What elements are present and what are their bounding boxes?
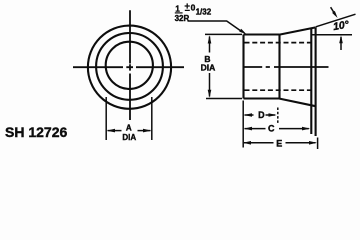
svg-text:SH 12726: SH 12726 [5,124,67,140]
svg-text:E: E [276,139,282,149]
svg-text:1: 1 [175,5,180,14]
svg-text:C: C [268,124,275,134]
svg-text:A: A [126,124,132,133]
svg-text:1/32: 1/32 [196,7,212,16]
svg-text:DIA: DIA [122,133,136,142]
svg-text:DIA: DIA [201,63,216,73]
svg-text:32R: 32R [175,14,190,23]
svg-text:D: D [258,110,265,120]
